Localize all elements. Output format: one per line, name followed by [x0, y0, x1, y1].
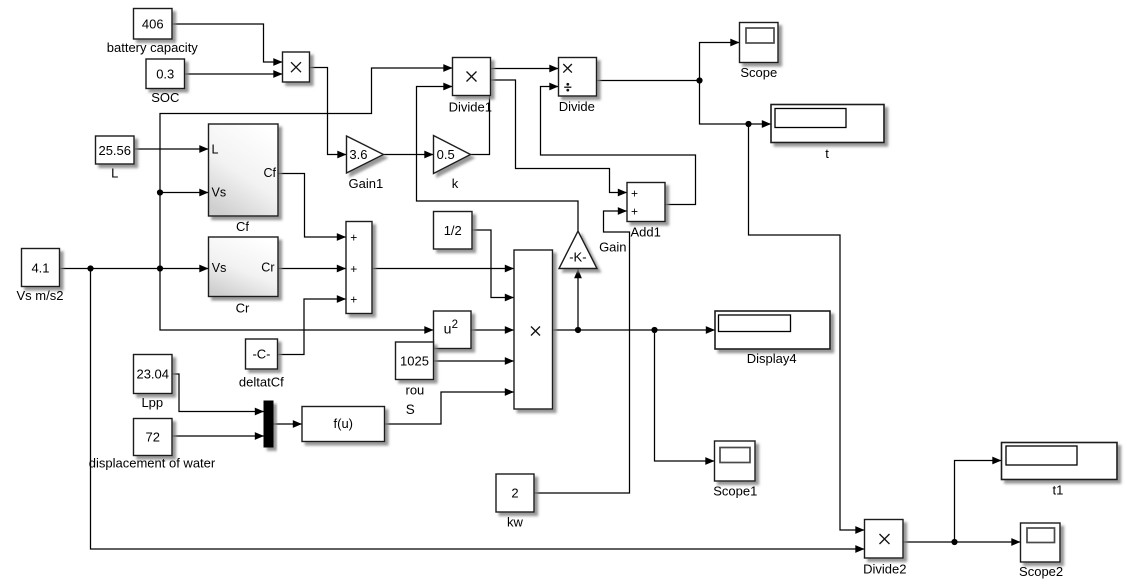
- display block t1: [1002, 443, 1118, 480]
- wire: Divide1 -> Divide in1: [491, 68, 559, 70]
- gain k 0.5 triangle: [434, 136, 471, 174]
- subsystem Cr: [209, 237, 279, 297]
- svg-text:3.6: 3.6: [349, 147, 367, 162]
- svg-text:L: L: [111, 166, 118, 181]
- divide block (x over division): [559, 58, 597, 97]
- wire: deltatCf -C- -> Sum in3: [278, 299, 347, 355]
- wire: Fcn f(u) signal S -> Product5 in5: [385, 392, 515, 424]
- svg-text:rou: rou: [406, 382, 425, 397]
- wire: t junction -> Divide2 in1: [749, 124, 865, 530]
- wire: Vs branch up to Divide1 in1: [160, 68, 453, 269]
- fcn block f(u): [302, 407, 385, 442]
- svg-text:deltatCf: deltatCf: [239, 375, 284, 390]
- svg-text:+: +: [350, 292, 357, 306]
- svg-text:2: 2: [452, 319, 458, 331]
- svg-text:4.1: 4.1: [31, 260, 49, 275]
- svg-text:25.56: 25.56: [98, 143, 131, 158]
- wire: Divide out branch up -> Scope: [700, 43, 740, 81]
- svg-text:Divide: Divide: [559, 99, 595, 114]
- subsystem Cf: [209, 124, 279, 216]
- svg-text:+: +: [350, 262, 357, 276]
- wire: k -> Add1 in1: [471, 80, 628, 193]
- svg-text:kw: kw: [507, 515, 524, 530]
- wire: SOC 0.3 -> Product in2: [185, 73, 283, 75]
- constant 4.1 (Vs m/s2): [22, 249, 60, 287]
- wire: L 25.56 -> Cf port L: [134, 148, 209, 150]
- mux (black bar): [264, 401, 273, 447]
- wire: Product5 out branch down -> Scope1: [655, 330, 715, 461]
- gain -K- up-pointing triangle (Gain): [559, 231, 597, 269]
- svg-text:Cf: Cf: [236, 219, 249, 234]
- constant 25.56 (L): [96, 136, 135, 164]
- product block (battery x SOC): [283, 52, 310, 82]
- wire: Divide2 out branch up -> t1 display: [955, 461, 1002, 543]
- svg-text:72: 72: [146, 430, 160, 445]
- gain Gain1 3.6 triangle: [347, 136, 384, 173]
- svg-text:Cr: Cr: [261, 261, 274, 275]
- svg-text:Lpp: Lpp: [141, 395, 163, 410]
- svg-text:Divide1: Divide1: [449, 99, 492, 114]
- junction: Product5 out to Gain: [575, 327, 581, 333]
- svg-text:1025: 1025: [400, 353, 429, 368]
- svg-text:k: k: [452, 176, 459, 191]
- wire: Vs branch -> Cf port Vs: [160, 192, 209, 194]
- wire: Vs branch down and across to Divide2 in2: [91, 269, 865, 550]
- svg-text:Vs m/s2: Vs m/s2: [17, 288, 64, 303]
- wire: kw 2 -> Add1 in2: [534, 211, 630, 493]
- wire: Vs branch down -> u^2: [160, 269, 434, 331]
- svg-text:-K-: -K-: [569, 249, 586, 264]
- wire: Add1 out -> Divide in2 (divisor): [541, 87, 696, 205]
- junction: Vs to Cf: [157, 189, 163, 195]
- svg-text:Add1: Add1: [631, 225, 661, 240]
- wire: Divide out branch down -> t display: [700, 81, 772, 125]
- constant 0.3 (SOC): [146, 59, 185, 89]
- svg-text:t1: t1: [1052, 482, 1063, 497]
- svg-text:406: 406: [142, 17, 164, 32]
- wire: battery capacity 406 -> Product in1: [172, 24, 283, 62]
- svg-text:Scope1: Scope1: [713, 484, 757, 499]
- svg-text:2: 2: [511, 486, 518, 501]
- junction: Divide2 out: [951, 539, 957, 545]
- junction: Vs main branch: [157, 265, 163, 271]
- svg-text:SOC: SOC: [151, 90, 179, 105]
- constant 2 (kw): [496, 474, 534, 512]
- constant 1025 (rou): [396, 342, 434, 380]
- svg-text:Vs: Vs: [212, 261, 227, 275]
- wire: rou 1025 -> Product5 in4: [434, 360, 515, 362]
- svg-text:Scope2: Scope2: [1019, 564, 1063, 579]
- wire: Cf out -> Sum in1: [278, 174, 346, 238]
- wire: displacement of water 72 -> Mux in2: [172, 435, 264, 437]
- wire: Vs 4.1 -> Cr port Vs: [60, 268, 209, 270]
- divide2 block (x): [865, 520, 904, 559]
- svg-text:Display4: Display4: [747, 351, 797, 366]
- svg-text:+: +: [631, 205, 638, 219]
- svg-text:Gain: Gain: [599, 239, 626, 254]
- svg-text:+: +: [350, 230, 357, 244]
- wire: Divide out -> junction: [597, 80, 700, 82]
- svg-text:t: t: [825, 146, 829, 161]
- scope block Scope1: [715, 441, 756, 481]
- constant -C- (deltatCf): [246, 339, 278, 369]
- svg-text:0.5: 0.5: [437, 147, 455, 162]
- display block Display4: [715, 311, 830, 349]
- junction: Vs near source: [87, 265, 93, 271]
- sum block (+ + +): [346, 222, 372, 314]
- wire: Product -> Gain1: [310, 68, 347, 155]
- wire: Gain -K- out -> Divide1 in2: [417, 87, 579, 232]
- junction: t feed: [745, 121, 751, 127]
- wire: Gain1 -> k: [384, 154, 434, 156]
- svg-text:Vs: Vs: [212, 186, 227, 200]
- wire: Divide2 out -> Scope2: [903, 541, 1021, 543]
- svg-text:displacement of water: displacement of water: [89, 456, 216, 471]
- wire: Product5 out branch up -> Gain -K- input: [577, 269, 579, 330]
- svg-text:23.04: 23.04: [136, 367, 169, 382]
- constant 23.04 (Lpp): [134, 355, 173, 394]
- svg-text:1/2: 1/2: [444, 223, 462, 238]
- svg-text:-C-: -C-: [252, 347, 270, 362]
- constant 406 (battery capacity): [134, 9, 173, 40]
- divide1 block (x): [453, 58, 491, 96]
- wire: Product5 out -> Display4: [553, 329, 716, 331]
- svg-text:u: u: [444, 321, 452, 337]
- junction: Divide out: [696, 77, 702, 83]
- scope block Scope2: [1021, 523, 1061, 562]
- svg-text:f(u): f(u): [334, 416, 354, 431]
- svg-text:Scope: Scope: [740, 65, 777, 80]
- svg-text:Gain1: Gain1: [349, 176, 384, 191]
- svg-text:S: S: [406, 402, 415, 417]
- add1 block (+ +): [627, 183, 665, 222]
- svg-text:L: L: [212, 143, 219, 157]
- math function u^2: [434, 311, 472, 349]
- svg-text:+: +: [631, 187, 638, 201]
- svg-text:Cr: Cr: [236, 301, 250, 316]
- scope block Scope: [740, 23, 779, 63]
- wire: Mux -> Fcn f(u): [273, 423, 302, 425]
- wire: Sum -> Product5 in1: [372, 268, 514, 270]
- wire: Cr out -> Sum in2: [278, 268, 346, 270]
- wire: u^2 -> Product5 in3: [471, 329, 514, 331]
- svg-text:0.3: 0.3: [156, 67, 174, 82]
- svg-text:Divide2: Divide2: [863, 561, 906, 576]
- display block t: [771, 105, 884, 143]
- junction: Product5 out to Scope1: [651, 327, 657, 333]
- constant 1/2: [434, 212, 473, 250]
- product5 block (big multiply): [514, 250, 553, 409]
- wire: 1/2 -> Product5 in2: [472, 230, 514, 298]
- svg-text:Cf: Cf: [264, 166, 277, 180]
- svg-text:battery capacity: battery capacity: [107, 40, 199, 55]
- wire: Lpp 23.04 -> Mux in1: [172, 374, 264, 412]
- constant 72 (displacement of water): [134, 419, 173, 456]
